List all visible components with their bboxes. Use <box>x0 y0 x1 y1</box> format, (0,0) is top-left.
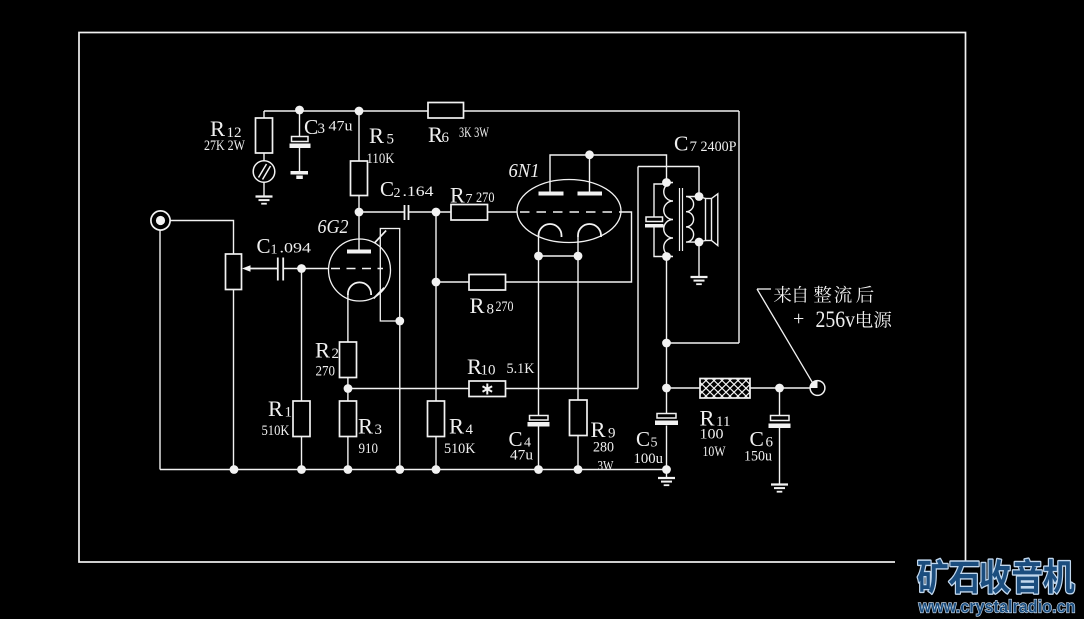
label R3 <box>358 414 382 458</box>
tube 6G2 diode plate upper <box>375 231 387 244</box>
wire feedback bottom right <box>506 388 639 390</box>
wire 6G2 anode lead <box>358 212 360 250</box>
svg-text:R: R <box>369 123 384 148</box>
svg-text:47u: 47u <box>510 448 533 464</box>
wire speaker stub top <box>699 197 706 199</box>
tube 6N1 cathode 2 <box>578 224 601 237</box>
label C5 <box>634 427 664 467</box>
ground under C3 <box>291 171 309 179</box>
svg-text:C: C <box>636 427 650 451</box>
svg-text:3: 3 <box>375 422 383 438</box>
wire C4 lower lead <box>538 427 540 470</box>
watermark 矿石收音机 <box>918 559 1075 594</box>
wire C4 upper lead <box>538 256 540 416</box>
wire C6 lower lead <box>779 428 781 484</box>
label R12 <box>204 116 245 154</box>
wire input jack drop <box>159 230 161 470</box>
ground under C5 <box>658 478 675 485</box>
resistor R3 <box>340 401 357 437</box>
input jack J1 <box>151 211 170 230</box>
tube 6G2 grid <box>331 268 383 270</box>
capacitor C1 <box>278 258 283 281</box>
label 6N1 <box>509 160 540 182</box>
svg-text:510K: 510K <box>444 441 476 457</box>
wire speaker stub bottom <box>699 241 706 243</box>
wire R11 right lead <box>750 387 811 389</box>
svg-text:5: 5 <box>387 132 395 148</box>
wire 6N1 cathode1 lead <box>538 237 540 256</box>
svg-text:C: C <box>380 177 394 201</box>
tube 6G2 diode plate lower <box>374 288 385 299</box>
label R10 <box>467 354 535 379</box>
tube 6N1 envelope <box>517 180 621 243</box>
capacitor C4 <box>528 416 550 427</box>
wire C7 lower lead <box>654 227 667 257</box>
wire R3 upper lead <box>347 389 349 402</box>
label C3 <box>304 115 353 139</box>
svg-text:7: 7 <box>466 192 473 207</box>
svg-text:+: + <box>793 308 804 330</box>
potentiometer RP <box>226 254 279 290</box>
svg-text:1: 1 <box>285 405 293 421</box>
svg-text:5.1K: 5.1K <box>507 361 536 377</box>
neon lamp <box>253 161 275 183</box>
svg-text:4: 4 <box>466 422 474 438</box>
speaker <box>706 194 718 246</box>
wire R8 left lead <box>436 281 469 283</box>
svg-text:6G2: 6G2 <box>318 216 349 238</box>
wire top B+ bus right <box>464 110 740 112</box>
resistor R8 <box>469 275 506 291</box>
label C1 <box>257 234 312 258</box>
resistor R1 <box>293 401 310 437</box>
svg-text:R: R <box>449 414 464 439</box>
svg-text:6: 6 <box>442 130 450 146</box>
transformer secondary <box>686 197 699 243</box>
wire R9 lower lead <box>577 436 579 470</box>
svg-text:R: R <box>450 183 465 208</box>
svg-text:R: R <box>591 417 606 442</box>
svg-text:C: C <box>674 132 688 156</box>
svg-text:910: 910 <box>359 441 379 457</box>
resistor R10 <box>469 381 506 397</box>
wire C3 lower lead <box>299 148 301 171</box>
label C6 <box>744 427 774 465</box>
wire R12 upper lead <box>263 111 265 118</box>
svg-text:2: 2 <box>332 346 340 362</box>
capacitor C6 <box>769 416 791 429</box>
svg-text:8: 8 <box>487 302 495 318</box>
capacitor C2 <box>405 205 409 220</box>
power leader line <box>757 289 812 382</box>
wire jack to pot <box>170 221 234 255</box>
svg-text:150u: 150u <box>744 449 772 465</box>
svg-text:R: R <box>268 396 283 421</box>
svg-text:7: 7 <box>690 139 698 155</box>
tube 6N1 grid dashed <box>520 211 621 213</box>
label R11 <box>700 406 731 461</box>
border frame <box>79 33 966 563</box>
label R8 <box>470 293 514 318</box>
wire lamp to ground <box>263 182 265 196</box>
tube 6N1 anode 1 <box>539 192 564 196</box>
svg-text:C: C <box>750 427 764 451</box>
wire R9 upper lead <box>577 256 579 400</box>
svg-text:256v: 256v <box>816 307 856 332</box>
wire C7 upper lead <box>654 184 667 218</box>
wire C3 upper lead <box>299 110 301 137</box>
wire R7 to 6N1 grid <box>488 211 518 213</box>
label R5 <box>367 123 395 167</box>
tube 6G2 diode box <box>380 229 399 322</box>
watermark backdrop <box>895 561 1084 619</box>
resistor R5 <box>351 161 368 196</box>
svg-text:R: R <box>315 338 330 363</box>
wire 6N1 anode tie <box>550 155 667 192</box>
resistor R12 <box>256 118 273 153</box>
ground under C6 <box>771 485 788 492</box>
wire cathode tie <box>539 255 579 257</box>
wire C5 lower lead <box>666 426 668 470</box>
wire C2 node drop to R4 <box>435 212 437 401</box>
watermark url <box>918 597 1076 617</box>
svg-text:R: R <box>358 414 373 439</box>
label R2 <box>315 338 339 380</box>
svg-text:10W: 10W <box>703 444 726 460</box>
wire R12 to lamp <box>263 153 265 161</box>
svg-text:6N1: 6N1 <box>509 160 540 182</box>
wire wiper link <box>248 268 278 270</box>
wire R2 lower lead <box>347 378 349 389</box>
wire B+ right drop <box>738 111 740 343</box>
svg-text:270: 270 <box>316 364 336 380</box>
wire ground rail <box>160 469 667 471</box>
capacitor C5 <box>655 414 678 426</box>
svg-text:C: C <box>257 234 271 258</box>
wire R5 lower lead <box>358 196 360 213</box>
resistor R2 <box>340 342 357 378</box>
wire feedback riser at speaker <box>698 167 700 197</box>
ground under lamp <box>256 197 273 204</box>
tube 6N1 cathode 1 <box>539 224 562 237</box>
svg-text:10: 10 <box>481 363 496 379</box>
wire R3 lower lead <box>347 437 349 470</box>
wire 6G2 grid lead <box>302 268 330 270</box>
capacitor C3 <box>290 137 311 149</box>
svg-text:280: 280 <box>593 440 614 456</box>
svg-text:270: 270 <box>476 190 495 206</box>
transformer primary <box>664 183 673 257</box>
wire C6 upper lead <box>779 388 781 416</box>
svg-text:3K 3W: 3K 3W <box>459 125 489 141</box>
svg-text:270: 270 <box>496 299 514 315</box>
wire pot lower lead <box>233 290 235 470</box>
svg-text:27K 2W: 27K 2W <box>204 138 245 154</box>
svg-text:110K: 110K <box>367 151 395 167</box>
wire R1 upper lead <box>301 269 303 402</box>
label R1 <box>262 396 293 439</box>
annotation line1 来自整流后 <box>774 286 873 303</box>
svg-text:C: C <box>304 115 318 139</box>
resistor R7 <box>451 205 488 221</box>
svg-text:3: 3 <box>318 121 326 137</box>
wire C2 to R7 <box>409 211 452 213</box>
svg-text:R: R <box>470 293 485 318</box>
wire B+ horizontal to C5 node <box>667 342 740 344</box>
capacitor C7 <box>645 217 664 228</box>
svg-text:1: 1 <box>271 243 278 258</box>
label C7 <box>674 132 737 156</box>
wire 6G2 cathode lead <box>347 294 349 342</box>
ground under speaker secondary <box>691 277 708 284</box>
wire top B+ bus left <box>264 110 428 112</box>
wire R5 upper lead <box>358 111 360 161</box>
wire secondary ground stub <box>698 242 700 276</box>
wire C1 to grid node <box>283 268 301 270</box>
power terminal <box>810 381 825 396</box>
wire R1 lower lead <box>301 437 303 470</box>
transformer core <box>680 188 683 251</box>
svg-text:5: 5 <box>651 436 658 451</box>
svg-text:47u: 47u <box>329 119 353 135</box>
wire 6N1 grid2 to R8 <box>506 212 632 282</box>
wire B+ vertical trunk <box>666 257 668 415</box>
svg-text:510K: 510K <box>262 423 290 439</box>
resistor R6 <box>428 103 464 119</box>
resistor R4 <box>428 401 445 437</box>
wire C2 left lead <box>359 211 405 213</box>
resistor R11 <box>680 379 772 399</box>
svg-text:3W: 3W <box>598 458 614 473</box>
label R4 <box>444 414 476 458</box>
svg-text:100u: 100u <box>634 451 664 467</box>
annotation line2 + 256v 电源 <box>793 307 891 332</box>
wire feedback bottom left <box>348 388 469 390</box>
wire 6N1 cathode2 lead <box>577 237 579 256</box>
label C2 <box>380 177 434 201</box>
wire feedback left drop <box>637 167 639 389</box>
wire R4 lower lead <box>435 437 437 470</box>
svg-text:2400P: 2400P <box>701 139 737 155</box>
wire 6G2 diode drop <box>399 321 401 470</box>
tube 6G2 cathode <box>348 282 371 295</box>
label 6G2 <box>318 216 349 238</box>
resistor R9 <box>570 400 588 436</box>
tube 6G2 anode <box>347 250 371 254</box>
label C4 <box>509 427 534 464</box>
label R9 <box>591 417 616 473</box>
svg-text:.094: .094 <box>280 241 312 257</box>
label R7 <box>450 183 495 208</box>
svg-text:2: 2 <box>394 186 401 201</box>
svg-text:.164: .164 <box>403 184 435 200</box>
svg-text:100: 100 <box>700 427 724 443</box>
wire C5 ground stub <box>666 470 668 478</box>
tube 6G2 envelope <box>329 239 391 301</box>
wire feedback top <box>638 166 699 168</box>
tube 6N1 anode 2 <box>578 192 603 196</box>
svg-text:www.crystalradio.cn: www.crystalradio.cn <box>918 597 1076 617</box>
wire R11 left lead <box>667 387 701 389</box>
label R6 <box>428 122 489 147</box>
